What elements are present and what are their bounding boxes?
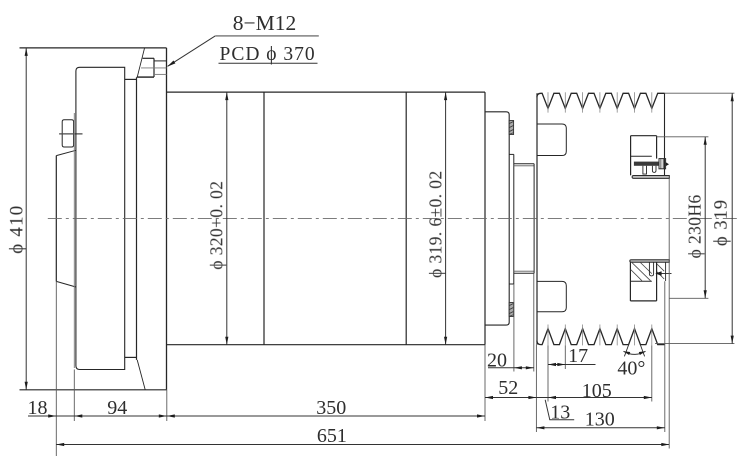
svg-text:20: 20 (487, 350, 507, 372)
svg-text:8−M12: 8−M12 (233, 11, 297, 35)
pulley left groove notch lower (537, 281, 566, 311)
svg-text:52: 52 (498, 377, 518, 399)
label 651 (317, 425, 347, 447)
bushing flange bar upper (632, 176, 669, 179)
shaft shoulder (509, 154, 514, 284)
bolt M12 shank lines (141, 61, 167, 75)
extension lines phi230H6 (657, 137, 709, 298)
pulley top edge with V-grooves (537, 93, 665, 108)
extension line pulley face down (535, 345, 537, 432)
label phi319 (712, 199, 732, 246)
body section divider right (405, 92, 407, 345)
motor body outline (167, 92, 486, 345)
shaft surface (514, 164, 534, 274)
lifting eye bolt on rear cover (59, 120, 82, 147)
extension bushing right down (668, 178, 670, 448)
bushing body lower (630, 262, 665, 301)
label 52 (498, 377, 518, 399)
rear cover outer face (56, 150, 76, 287)
bushing screw upper (634, 159, 669, 169)
bushing screw lower with arrow (655, 271, 671, 276)
dimension line 52 and 105 (485, 396, 652, 399)
svg-text:ϕ 320+0. 02: ϕ 320+0. 02 (206, 181, 226, 270)
extension line 20 right (533, 273, 535, 371)
label phi320 (206, 181, 226, 270)
front end cap (485, 112, 509, 325)
pulley left face (536, 93, 538, 344)
svg-text:105: 105 (582, 380, 612, 402)
label 17 (568, 345, 588, 367)
label 350 (316, 397, 346, 419)
label 130 (585, 409, 615, 431)
extension line groove2 down (564, 345, 566, 369)
svg-text:40°: 40° (617, 358, 645, 380)
extension line 20 left (513, 284, 515, 372)
extension line groove1 down (547, 345, 549, 401)
extension line flange right (166, 390, 168, 421)
bushing screw slot lower (649, 262, 653, 276)
dimension line phi319.6 (444, 92, 447, 345)
svg-text:ϕ 230H6: ϕ 230H6 (684, 194, 704, 258)
dimension line phi319 (731, 93, 734, 343)
svg-text:130: 130 (585, 409, 615, 431)
svg-text:18: 18 (28, 397, 48, 419)
svg-text:94: 94 (107, 397, 127, 419)
dimension line 18-94-350 (28, 414, 485, 417)
bottom groove center ticks (548, 325, 652, 346)
svg-text:13: 13 (550, 402, 570, 424)
bolt M12 head in flange pocket (138, 58, 155, 77)
svg-text:ϕ 410: ϕ 410 (7, 205, 28, 254)
extension lines phi319 (655, 93, 734, 343)
dimension line phi230H6 (704, 137, 707, 298)
svg-text:ϕ 319. 6±0. 02: ϕ 319. 6±0. 02 (426, 170, 446, 278)
label 105 (582, 380, 612, 402)
terminal block lower (509, 303, 513, 317)
label phi230H6 (684, 194, 704, 258)
centerline (axis) (48, 217, 737, 219)
bushing screw retainer tabs upper (643, 166, 656, 174)
bushing flange bar lower (630, 260, 670, 262)
svg-text:PCD ϕ 370: PCD ϕ 370 (219, 44, 315, 65)
svg-text:350: 350 (316, 397, 346, 419)
label 40deg (617, 358, 645, 380)
dimension line 17 (548, 363, 596, 366)
pulley left groove notch upper (537, 124, 566, 156)
label 94 (107, 397, 127, 419)
label 20 (487, 350, 507, 372)
label 18 (28, 397, 48, 419)
terminal block upper (509, 121, 513, 135)
pulley right face (664, 93, 666, 178)
dimension line 20 (488, 366, 534, 369)
svg-text:ϕ 319: ϕ 319 (712, 199, 732, 246)
svg-text:651: 651 (317, 425, 347, 447)
rear housing block (74, 67, 124, 369)
dimension line phi320 (225, 92, 228, 345)
dimension line 651 (56, 443, 669, 446)
dimension line 130 (536, 426, 664, 429)
label phi319.6 (426, 170, 446, 278)
label phi410 (7, 205, 28, 254)
body section divider left (263, 92, 265, 345)
40deg groove flank extensions (624, 345, 644, 357)
extension line 94 left (73, 370, 75, 422)
bushing hatching lower (631, 263, 665, 281)
label 8-M12 (233, 11, 297, 35)
middle spacer plate (125, 77, 137, 360)
pulley bottom edge with V-grooves (537, 329, 665, 345)
pulley hub face (533, 164, 535, 274)
extension line groove7 down (651, 345, 653, 401)
leader 8-M12 (167, 36, 319, 67)
mounting flange disc (20, 48, 167, 390)
label PCD phi370 (219, 44, 318, 65)
dimension line phi410 (25, 48, 28, 390)
svg-text:17: 17 (568, 345, 588, 367)
bushing body upper (631, 136, 657, 176)
top groove center ticks (548, 92, 652, 112)
extension pulley right down (664, 281, 666, 432)
extension line body right (484, 345, 486, 421)
leader and label 13 (545, 400, 574, 424)
extension line left of 18 (55, 281, 57, 456)
40deg arc with arrows (624, 351, 646, 355)
